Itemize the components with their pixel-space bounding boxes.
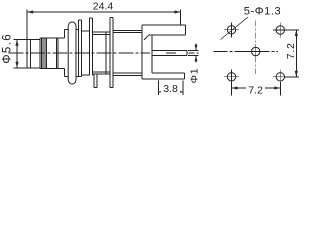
body section ring <box>57 38 65 69</box>
connector front inner edge <box>29 40 31 68</box>
svg-text:5-Φ1.3: 5-Φ1.3 <box>244 6 281 18</box>
mounting plate <box>110 18 113 88</box>
lock washer dome <box>68 22 78 84</box>
svg-text:7.2: 7.2 <box>285 42 297 59</box>
dimension 7.2 bottom label <box>246 84 265 97</box>
dimension 7.2 right <box>285 30 299 77</box>
bracket web <box>151 35 153 73</box>
svg-text:3.8: 3.8 <box>163 83 178 95</box>
bracket arm <box>142 25 185 79</box>
dimension 3.8 label <box>161 83 180 95</box>
hole bottom-left <box>224 69 239 84</box>
bracket top bar <box>113 30 142 32</box>
dimension 3.8 <box>159 81 184 96</box>
footprint vertical centerline <box>255 21 257 75</box>
svg-text:24.4: 24.4 <box>93 1 114 13</box>
bracket leg <box>142 73 184 79</box>
flange body <box>93 32 111 74</box>
center pin <box>152 50 187 55</box>
bracket bottom bar <box>113 73 142 75</box>
hole bottom-right <box>273 69 288 84</box>
footprint horizontal centerline <box>214 51 279 53</box>
dimension 7.2 bottom <box>232 82 281 96</box>
svg-text:Φ1: Φ1 <box>189 68 201 84</box>
dimension phi1 <box>188 44 199 63</box>
hole top-left <box>224 22 239 37</box>
connector front face <box>26 10 28 68</box>
leader 5-phi1.3 <box>221 17 249 40</box>
dimension phi5.6 line <box>14 40 28 68</box>
barrel outline <box>27 39 40 41</box>
centerline <box>9 52 151 54</box>
washer bar <box>90 18 93 76</box>
hole top-right <box>273 23 288 38</box>
svg-text:7.2: 7.2 <box>248 85 263 97</box>
hex nut <box>65 29 69 76</box>
hole center <box>248 44 263 59</box>
dimension 24.4 line <box>27 10 180 26</box>
solder pin A <box>94 74 97 88</box>
knurl ring <box>40 38 57 69</box>
svg-text:Φ5.6: Φ5.6 <box>2 33 14 64</box>
solder lug bar <box>79 20 90 77</box>
